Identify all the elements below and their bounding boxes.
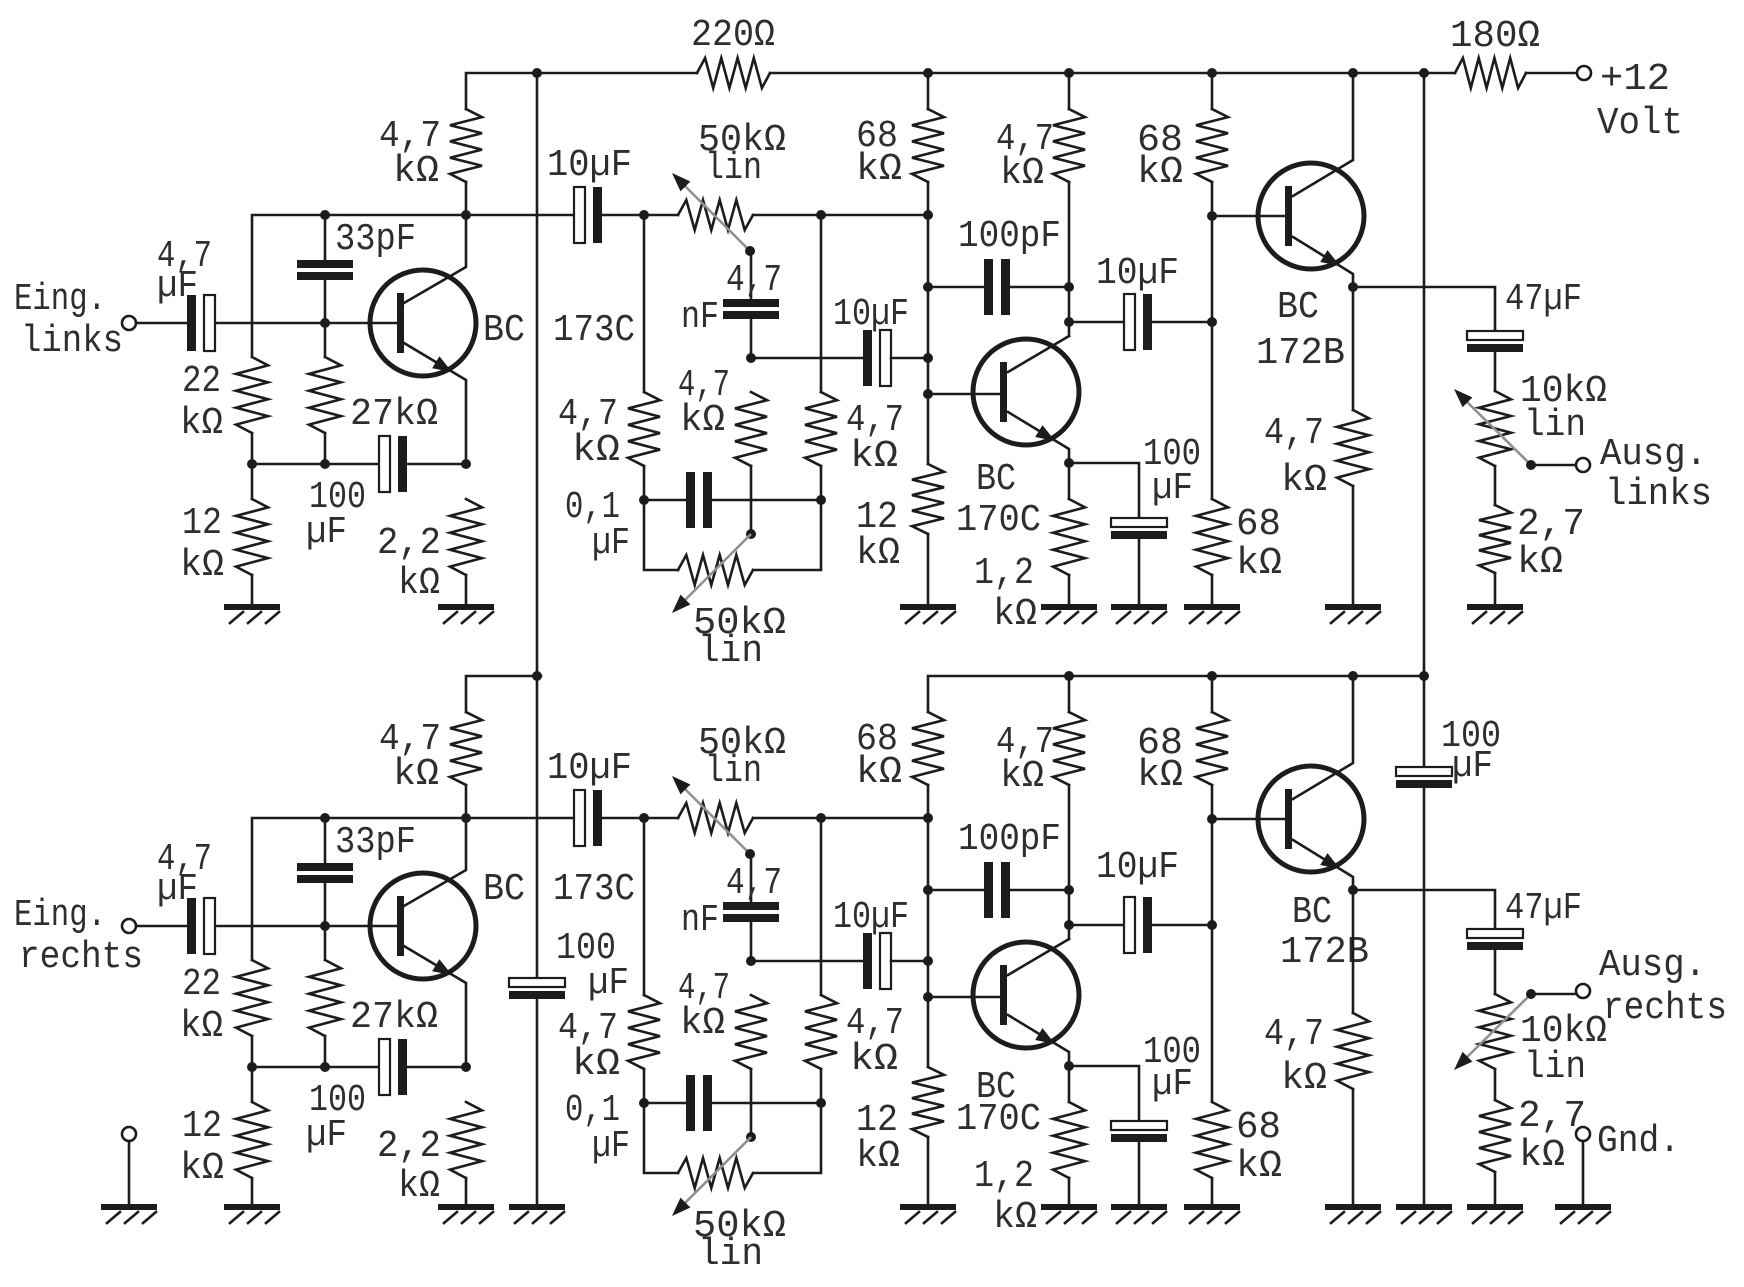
wire 12kΩ to ground (left channel)	[927, 534, 930, 604]
svg-text:BC: BC	[483, 309, 525, 352]
junction mid node / 4,7nF (left channel)	[746, 353, 756, 363]
capacitor 100pF (collector-base BC170C) (right channel)	[984, 862, 993, 918]
emitter arrow BC173C (right channel)	[432, 959, 452, 975]
svg-text:lin: lin	[705, 750, 762, 793]
capacitor 4,7µF input coupling (left channel)	[187, 295, 196, 351]
wiper line treble pot (left channel)	[679, 180, 750, 251]
svg-text:Ausg.: Ausg.	[1600, 433, 1707, 476]
junction collector node / 33pF top (right channel)	[320, 813, 330, 823]
svg-text:kΩ: kΩ	[856, 751, 902, 794]
junction feedback node left (left channel)	[247, 459, 257, 469]
junction rail / 4,7kΩ BC170C (left channel)	[1064, 68, 1074, 78]
svg-text:kΩ: kΩ	[1000, 152, 1044, 195]
wire tone right column lower (left channel)	[753, 466, 821, 570]
junction emitter / feedback (left channel)	[461, 459, 471, 469]
wiper arrow volume pot (left)	[1454, 389, 1472, 407]
junction collector / 10µF out (left channel)	[1064, 317, 1074, 327]
wire 2,2kΩ to ground (right channel)	[465, 1178, 468, 1207]
svg-text:kΩ: kΩ	[856, 148, 902, 191]
svg-text:kΩ: kΩ	[180, 1005, 223, 1048]
junction rail / bus B	[1419, 68, 1429, 78]
junction 100pF left (right channel)	[923, 885, 933, 895]
svg-text:µF: µF	[588, 962, 629, 1005]
svg-text:2,7: 2,7	[1517, 503, 1585, 546]
wire 22kΩ to feedback node (right channel)	[251, 1036, 254, 1102]
wire 2,2kΩ to ground (left channel)	[465, 575, 468, 604]
svg-text:kΩ: kΩ	[1236, 1145, 1282, 1188]
svg-text:10µF: 10µF	[1096, 846, 1179, 889]
wire 1,2kΩ to ground (right channel)	[1068, 1178, 1071, 1207]
transistor BC170C (left channel)	[973, 339, 1079, 445]
svg-text:nF: nF	[681, 296, 719, 339]
wire 33pF top lead (right channel)	[324, 818, 327, 863]
wire 10µF to divider column (right channel)	[891, 960, 928, 963]
svg-text:10µF: 10µF	[833, 896, 909, 939]
svg-text:rechts: rechts	[19, 936, 143, 979]
terminal Ausg. rechts	[1576, 984, 1590, 998]
transistor BC172B (left channel)	[1258, 163, 1364, 269]
capacitor 33pF (collector-base) (right channel)	[297, 863, 353, 871]
svg-text:BC: BC	[483, 868, 525, 911]
resistor 68kΩ divider upper (right channel)	[912, 712, 944, 785]
junction rail / 4,7kΩ BC170C (right channel)	[1064, 671, 1074, 681]
junction 100pF left (left channel)	[923, 282, 933, 292]
junction collector node / 33pF top (left channel)	[320, 210, 330, 220]
svg-text:µF: µF	[592, 522, 630, 565]
resistor 12kΩ bias lower (left channel)	[236, 499, 268, 575]
wire 4,7kΩ to rail BC170C (right channel)	[1068, 676, 1071, 712]
junction rail / 68kΩ (left channel)	[923, 68, 933, 78]
svg-text:kΩ: kΩ	[993, 593, 1037, 636]
wire collector node (right channel)	[252, 818, 574, 960]
svg-text:10µF: 10µF	[1096, 252, 1179, 295]
ground 2,2kΩ (left channel)	[438, 604, 494, 610]
svg-text:180Ω: 180Ω	[1450, 15, 1540, 58]
junction treble wiper (left channel)	[745, 246, 755, 256]
junction emitter node BC170C (right channel)	[1064, 1061, 1074, 1071]
capacitor 4,7nF treble (right channel)	[723, 902, 779, 910]
wire 10µF to divider column (left channel)	[891, 357, 928, 360]
svg-text:µF: µF	[306, 1114, 347, 1157]
wire 47µF to volume pot (right channel)	[1494, 949, 1497, 994]
junction tone network left top (right channel)	[639, 813, 649, 823]
wiper line volume pot (left)	[1461, 396, 1531, 465]
resistor 4,7kΩ tone right (left channel)	[805, 392, 837, 466]
svg-text:µF: µF	[1152, 1063, 1193, 1106]
junction rail / collector BC172B (left channel)	[1348, 68, 1358, 78]
ground 68kΩ lower (right channel)	[1184, 1204, 1240, 1210]
wire collector lead BC173C (right channel)	[404, 818, 466, 906]
junction volume wiper (left)	[1526, 460, 1536, 470]
resistor 27kΩ feedback (left channel)	[309, 357, 341, 433]
resistor 2,7kΩ output load (left channel)	[1479, 505, 1511, 573]
ground 4,7kΩ emitter (left channel)	[1325, 604, 1381, 610]
wire base BC172B (right channel)	[1212, 818, 1284, 821]
svg-text:kΩ: kΩ	[856, 532, 900, 575]
resistor 22kΩ bias (left channel)	[236, 357, 268, 433]
transistor BC170C (right channel)	[973, 942, 1079, 1048]
svg-text:kΩ: kΩ	[1000, 755, 1044, 798]
wire 0,1µF right segment (left channel)	[710, 499, 821, 502]
wire 4,7kΩ to rail BC170C (left channel)	[1068, 73, 1071, 109]
svg-text:173C: 173C	[553, 309, 635, 352]
potentiometer 50kΩ lin treble (series) (right channel)	[678, 803, 753, 833]
svg-text:22: 22	[182, 360, 221, 403]
svg-text:12: 12	[182, 502, 222, 545]
svg-text:µF: µF	[157, 868, 198, 911]
transistor BC173C (left channel)	[370, 270, 476, 376]
junction emitter node BC172B (left channel)	[1348, 282, 1358, 292]
wire 68kΩ lower to ground (left channel)	[1211, 575, 1214, 604]
svg-text:kΩ: kΩ	[180, 1147, 224, 1190]
ground 68kΩ lower (left channel)	[1184, 604, 1240, 610]
svg-text:10µF: 10µF	[547, 747, 632, 790]
resistor 180Ω (supply feed, horizontal)	[1455, 58, 1526, 88]
resistor 12kΩ bias lower (right channel)	[236, 1102, 268, 1178]
potentiometer 50kΩ lin treble (series) (left channel)	[678, 200, 753, 230]
svg-text:1,2: 1,2	[974, 1155, 1034, 1198]
ground 100µF bypass (left channel)	[1111, 604, 1167, 610]
wire divider column (68kΩ / 12kΩ) (right channel)	[927, 785, 930, 1067]
wire 68kΩ upper to rail BC172B (right channel)	[1211, 676, 1214, 712]
svg-text:nF: nF	[681, 899, 719, 942]
svg-text:68: 68	[1236, 503, 1281, 546]
resistor 4,7kΩ emitter BC172B (right channel)	[1337, 1013, 1369, 1089]
junction 0,1µF wire right (right channel)	[816, 1098, 826, 1108]
wire tone right column upper (left channel)	[820, 215, 823, 392]
resistor 2,7kΩ output load (right channel)	[1479, 1100, 1511, 1172]
junction base node BC170C (left channel)	[923, 389, 933, 399]
wire 10µF out left segment (right channel)	[1069, 924, 1123, 927]
svg-text:links: links	[1605, 473, 1712, 516]
junction base node / 33pF / 27kΩ (right channel)	[320, 921, 330, 931]
svg-text:47µF: 47µF	[1505, 887, 1582, 930]
emitter arrow BC170C (left channel)	[1035, 425, 1055, 441]
svg-text:kΩ: kΩ	[1137, 151, 1183, 194]
resistor 220Ω (supply decoupling, horizontal)	[697, 58, 770, 88]
wire 0,1µF left segment (left channel)	[644, 499, 688, 502]
wire wiper to output terminal (left)	[1531, 464, 1576, 467]
ground chassis terminal	[101, 1204, 157, 1210]
wire 100µF bypass to ground (right channel)	[1138, 1143, 1141, 1207]
wire +12V supply rail right segment	[770, 72, 1455, 75]
wire 33pF bottom lead (left channel)	[324, 280, 327, 323]
capacitor 0,1µF bass (left channel)	[686, 472, 695, 528]
wire supply vertical bus A (left, to right-channel rail)	[536, 73, 539, 979]
capacitor 4,7µF input coupling (right channel)	[187, 898, 196, 954]
ground 1,2kΩ (right channel)	[1041, 1204, 1097, 1210]
wire 22kΩ to feedback node (left channel)	[251, 433, 254, 499]
resistor 4,7kΩ tone left (left channel)	[628, 392, 660, 466]
wire input terminal to coupling cap (right channel)	[136, 925, 188, 928]
resistor 68kΩ BC172B upper (left channel)	[1196, 109, 1228, 182]
ground 12kΩ (right channel)	[224, 1204, 280, 1210]
ground Gnd terminal	[1555, 1204, 1611, 1210]
svg-text:kΩ: kΩ	[572, 429, 620, 472]
svg-text:Gnd.: Gnd.	[1597, 1120, 1680, 1163]
wire divider column (68kΩ / 12kΩ) (left channel)	[927, 182, 930, 464]
junction base node / 33pF / 27kΩ (left channel)	[320, 318, 330, 328]
potentiometer 50kΩ lin bass (left channel)	[678, 555, 753, 585]
wiper arrow bass pot (left channel)	[672, 595, 690, 613]
wire 100µF bypass to ground (left channel)	[1138, 540, 1141, 604]
wire 100pF right segment (left channel)	[1008, 286, 1069, 289]
wire 100µF to emitter (right channel)	[406, 1066, 466, 1069]
wire 4,7kΩ to collector node (left channel)	[465, 182, 468, 215]
capacitor 0,1µF bass (right channel)	[686, 1075, 695, 1131]
capacitor 47µF output coupling (left channel)	[1467, 331, 1523, 340]
wire tone middle to bass wiper (right channel)	[750, 1069, 753, 1137]
wire emitter to 47µF (left channel)	[1353, 287, 1495, 331]
wire base BC170C (left channel)	[928, 393, 1000, 396]
wiper arrow bass pot (right channel)	[672, 1198, 690, 1216]
wire 47µF to volume pot (left channel)	[1494, 351, 1497, 391]
wire tone left column upper (left channel)	[643, 215, 646, 392]
wire emitter to 100µF bypass (right channel)	[1069, 1066, 1139, 1121]
wire 12kΩ to ground (left channel)	[251, 575, 254, 604]
wire chassis terminal to ground	[128, 1141, 131, 1204]
wire collector column BC170C (right channel)	[1068, 785, 1071, 939]
resistor 4,7kΩ tone middle (left channel)	[735, 392, 767, 466]
wire +12V supply rail left segment	[466, 73, 697, 109]
junction emitter node BC170C (left channel)	[1064, 458, 1074, 468]
svg-text:27kΩ: 27kΩ	[350, 996, 438, 1039]
wire emitter lead BC170C (right channel)	[1008, 1015, 1069, 1102]
wire 2,7kΩ to ground (right channel)	[1494, 1172, 1497, 1207]
terminal input Eing. (right channel)	[122, 919, 136, 933]
resistor 22kΩ bias (right channel)	[236, 960, 268, 1036]
wire 33pF bottom lead (right channel)	[324, 883, 327, 926]
capacitor 10µF tone output coupling (left channel)	[863, 330, 872, 386]
junction tone network right top (left channel)	[816, 210, 826, 220]
junction rail / 68kΩ BC172B (right channel)	[1207, 671, 1217, 681]
wire treble wiper to 4,7nF (right channel)	[750, 854, 753, 902]
capacitor 33pF (collector-base) (left channel)	[297, 260, 353, 268]
wire wiper to output terminal (right)	[1531, 993, 1576, 996]
wiper line treble pot (right channel)	[679, 783, 750, 854]
wire 4,7kΩ emitter to ground (left channel)	[1352, 486, 1355, 604]
wire emitter to 100µF bypass (left channel)	[1069, 463, 1139, 518]
svg-text:1,2: 1,2	[974, 552, 1034, 595]
wire 2,7kΩ to ground (left channel)	[1494, 573, 1497, 604]
resistor 4,7kΩ collector load BC170C (left channel)	[1053, 109, 1085, 182]
wiper arrow volume pot (right)	[1454, 1052, 1472, 1070]
capacitor 10µF interstage coupling (right channel)	[574, 790, 585, 846]
wire 27kΩ top to base node (left channel)	[324, 323, 327, 357]
svg-text:172B: 172B	[1280, 931, 1369, 974]
svg-text:+12: +12	[1600, 58, 1670, 101]
wiper line volume pot (right)	[1461, 994, 1531, 1063]
svg-text:kΩ: kΩ	[993, 1196, 1037, 1239]
wire 10µF out right segment (left channel)	[1153, 321, 1212, 324]
wire emitter lead BC172B (left channel)	[1293, 237, 1353, 410]
wire 10µF out right segment (right channel)	[1153, 924, 1212, 927]
resistor 2,2kΩ emitter (left channel)	[450, 499, 482, 575]
junction base node BC172B (left channel)	[1207, 211, 1217, 221]
capacitor 47µF output coupling (right channel)	[1467, 929, 1523, 938]
junction base node BC172B (right channel)	[1207, 814, 1217, 824]
wire feedback node to 100µF (left channel)	[252, 463, 379, 466]
wire 12kΩ to ground (right channel)	[927, 1137, 930, 1207]
resistor 12kΩ divider lower (right channel)	[912, 1067, 944, 1137]
junction 10µF out / base column BC172B (left channel)	[1207, 317, 1217, 327]
svg-text:kΩ: kΩ	[398, 1165, 440, 1208]
junction emitter / feedback (right channel)	[461, 1062, 471, 1072]
resistor 68kΩ BC172B lower (left channel)	[1196, 499, 1228, 575]
svg-text:kΩ: kΩ	[398, 562, 440, 605]
junction mid node / 4,7nF (right channel)	[746, 956, 756, 966]
wire 27kΩ top to base node (right channel)	[324, 926, 327, 960]
junction rail / collector BC172B (right channel)	[1348, 671, 1358, 681]
wire 33pF top lead (left channel)	[324, 215, 327, 260]
resistor 4,7kΩ tone left (right channel)	[628, 995, 660, 1069]
terminal chassis (spare)	[122, 1127, 136, 1141]
wire 0,1µF left segment (right channel)	[644, 1102, 688, 1105]
wiper arrow treble pot (left channel)	[672, 173, 690, 191]
resistor 2,2kΩ emitter (right channel)	[450, 1102, 482, 1178]
ground 2,2kΩ (right channel)	[438, 1204, 494, 1210]
wire collector lead BC172B (left channel)	[1293, 73, 1353, 196]
svg-text:2,2: 2,2	[377, 1125, 441, 1168]
junction divider / tone top wire (right channel)	[923, 813, 933, 823]
svg-text:4,7: 4,7	[726, 862, 782, 905]
svg-text:BC: BC	[1277, 286, 1319, 329]
junction 100pF right (left channel)	[1064, 282, 1074, 292]
ground decoupling B	[1396, 1204, 1452, 1210]
wire 68kΩ lower to ground (right channel)	[1211, 1178, 1214, 1207]
svg-text:Eing.: Eing.	[14, 894, 106, 937]
wiper line bass pot (right channel)	[679, 1137, 751, 1209]
junction tone network left top (left channel)	[639, 210, 649, 220]
svg-text:4,7: 4,7	[1264, 1013, 1324, 1056]
svg-text:µF: µF	[592, 1125, 630, 1168]
svg-text:BC: BC	[976, 458, 1016, 501]
junction collector / 4,7kΩ load (left channel)	[461, 210, 471, 220]
wire emitter lead BC170C (left channel)	[1008, 412, 1069, 499]
potentiometer 50kΩ lin bass (right channel)	[678, 1158, 753, 1188]
svg-text:kΩ: kΩ	[1517, 541, 1563, 584]
svg-text:BC: BC	[1292, 891, 1332, 934]
wire feedback node to 100µF (right channel)	[252, 1066, 379, 1069]
transistor BC173C (right channel)	[370, 873, 476, 979]
capacitor 100pF (collector-base BC170C) (left channel)	[984, 259, 993, 315]
svg-text:kΩ: kΩ	[1236, 542, 1282, 585]
ground 100µF bypass (right channel)	[1111, 1204, 1167, 1210]
svg-text:220Ω: 220Ω	[691, 14, 775, 57]
resistor 4,7kΩ collector load (left channel)	[450, 109, 482, 182]
svg-text:µF: µF	[1452, 745, 1493, 788]
svg-text:kΩ: kΩ	[1281, 459, 1327, 502]
junction feedback node / 27kΩ (right channel)	[320, 1062, 330, 1072]
emitter arrow BC172B (left channel)	[1320, 250, 1340, 266]
wire rail to +12V terminal	[1526, 72, 1577, 75]
junction 100pF right (right channel)	[1064, 885, 1074, 895]
wire Gnd terminal to ground	[1582, 1141, 1585, 1204]
junction 0,1µF wire left (right channel)	[639, 1098, 649, 1108]
junction rail B / bus B	[1419, 671, 1429, 681]
wire 100pF right segment (right channel)	[1008, 889, 1069, 892]
capacitor 4,7nF treble (left channel)	[723, 299, 779, 307]
wire volume pot to 2,7kΩ (right channel)	[1494, 1069, 1497, 1100]
wire 4,7kΩ emitter to ground (right channel)	[1352, 1089, 1355, 1207]
resistor 4,7kΩ collector load BC170C (right channel)	[1053, 712, 1085, 785]
svg-text:170C: 170C	[956, 499, 1041, 542]
svg-text:kΩ: kΩ	[393, 753, 439, 796]
svg-text:2,2: 2,2	[377, 522, 441, 565]
svg-text:4,7: 4,7	[726, 259, 782, 302]
terminal +12 Volt	[1577, 66, 1591, 80]
resistor 1,2kΩ emitter BC170C (right channel)	[1053, 1102, 1085, 1178]
ground 12kΩ divider (left channel)	[900, 604, 956, 610]
terminal Gnd.	[1576, 1127, 1590, 1141]
ground 2,7kΩ (left channel)	[1467, 604, 1523, 610]
wire collector lead BC173C (left channel)	[404, 215, 466, 303]
svg-text:kΩ: kΩ	[850, 435, 898, 478]
emitter arrow BC172B (right channel)	[1320, 853, 1340, 869]
svg-text:kΩ: kΩ	[850, 1038, 898, 1081]
svg-text:links: links	[21, 320, 123, 363]
svg-text:µF: µF	[1152, 467, 1193, 510]
resistor 12kΩ divider lower (left channel)	[912, 464, 944, 534]
wire tone left column upper (right channel)	[643, 818, 646, 995]
wire 27kΩ bottom to feedback wire (left channel)	[324, 433, 327, 464]
emitter arrow BC173C (left channel)	[432, 356, 452, 372]
junction divider / tone top wire (left channel)	[923, 210, 933, 220]
wire 1,2kΩ to ground (left channel)	[1068, 575, 1071, 604]
svg-text:Ausg.: Ausg.	[1599, 944, 1706, 987]
resistor 1,2kΩ emitter BC170C (left channel)	[1053, 499, 1085, 575]
wire 10µF out left segment (left channel)	[1069, 321, 1123, 324]
resistor 4,7kΩ collector load (right channel)	[450, 712, 482, 785]
svg-text:lin: lin	[698, 630, 763, 673]
wire 0,1µF right segment (right channel)	[710, 1102, 821, 1105]
junction volume wiper (right)	[1526, 989, 1536, 999]
svg-text:100pF: 100pF	[958, 818, 1061, 861]
wire tone right column lower (right channel)	[753, 1069, 821, 1173]
capacitor 100µF emitter bypass (right channel)	[1111, 1121, 1167, 1130]
svg-text:4,7: 4,7	[1264, 412, 1324, 455]
capacitor 100µF supply decoupling B	[1396, 767, 1452, 776]
wire emitter lead BC173C (right channel)	[404, 946, 466, 1067]
svg-text:33pF: 33pF	[335, 821, 416, 864]
svg-text:kΩ: kΩ	[393, 150, 439, 193]
wire volume pot to 2,7kΩ (left channel)	[1494, 466, 1497, 505]
wire 100µF to emitter (left channel)	[406, 463, 466, 466]
wire 68kΩ upper to rail BC172B (left channel)	[1211, 73, 1214, 109]
junction rail B / bus A	[532, 671, 542, 681]
svg-text:kΩ: kΩ	[180, 544, 224, 587]
capacitor 10µF output coupling BC170C (right channel)	[1124, 897, 1135, 953]
wire emitter lead BC173C (left channel)	[404, 343, 466, 464]
wiper arrow treble pot (right channel)	[672, 776, 690, 794]
ground 12kΩ divider (right channel)	[900, 1204, 956, 1210]
wire 4,7nF to mid node (right channel)	[750, 922, 753, 961]
svg-text:kΩ: kΩ	[572, 1043, 620, 1086]
capacitor 100µF emitter bypass (left channel)	[1111, 518, 1167, 527]
junction emitter node BC172B (right channel)	[1348, 885, 1358, 895]
junction 0,1µF wire left (left channel)	[639, 495, 649, 505]
capacitor 100µF emitter feedback (left channel)	[379, 436, 390, 492]
wiper line bass pot (left channel)	[679, 534, 751, 606]
capacitor 10µF tone output coupling (right channel)	[863, 933, 872, 989]
ground 12kΩ (left channel)	[224, 604, 280, 610]
wire 12kΩ to ground (right channel)	[251, 1178, 254, 1207]
wire 27kΩ bottom to feedback wire (right channel)	[324, 1036, 327, 1067]
resistor 4,7kΩ tone middle (right channel)	[735, 995, 767, 1069]
wire base BC170C (right channel)	[928, 996, 1000, 999]
wire coupling cap to base of BC173C (right channel)	[216, 925, 398, 928]
junction 0,1µF wire right (left channel)	[816, 495, 826, 505]
